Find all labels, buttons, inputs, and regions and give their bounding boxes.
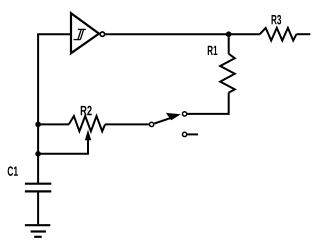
switch S1 upper throw contact <box>182 112 186 116</box>
node C junction dot <box>226 31 232 37</box>
wire: R2 to switch pole <box>105 123 149 125</box>
switch S1 pole contact <box>149 122 153 126</box>
node B junction dot <box>35 151 41 157</box>
op-amp U1: Schmitt-trigger inverter triangle <box>71 13 99 53</box>
label C1 <box>8 166 18 176</box>
node A junction dot <box>35 122 41 128</box>
wire: lower throw contact stub <box>187 133 198 135</box>
wire: left vertical between node A and node B <box>37 124 39 153</box>
switch S1 lower throw contact <box>182 132 186 136</box>
wire: node C to resistor R3 <box>229 33 260 35</box>
inversion bubble at U1 output <box>100 32 104 36</box>
wire: node C down to resistor R1 <box>228 34 230 54</box>
wire: node A to resistor R2 <box>38 123 69 125</box>
resistor R1 <box>220 54 235 93</box>
wire: R3 right lead stub <box>296 33 310 35</box>
capacitor C1 plates <box>25 184 51 192</box>
label R1 <box>208 46 218 55</box>
wire: capacitor C1 to ground <box>37 191 39 224</box>
resistor R2 (potentiometer body) <box>69 116 105 131</box>
wire: inverter input net, top horizontal and left vertical down to node A <box>38 34 71 124</box>
wire: R2 wiper lead from arrow down and left to node B <box>38 140 88 154</box>
wire: R1 bottom lead down and left to switch upper throw contact <box>187 93 228 114</box>
switch S1 lever arrowhead <box>166 113 181 120</box>
wire: U1 output to junction node C <box>105 33 228 35</box>
wire: node B down to capacitor C1 <box>37 154 39 183</box>
ground <box>25 225 50 237</box>
label R3 <box>272 15 282 25</box>
resistor R3 <box>260 28 297 41</box>
switch S1 lever with arrow <box>154 117 173 123</box>
hysteresis symbol inside U1 <box>74 29 86 39</box>
R2 wiper arrowhead <box>85 130 91 141</box>
label R2 <box>81 106 92 115</box>
